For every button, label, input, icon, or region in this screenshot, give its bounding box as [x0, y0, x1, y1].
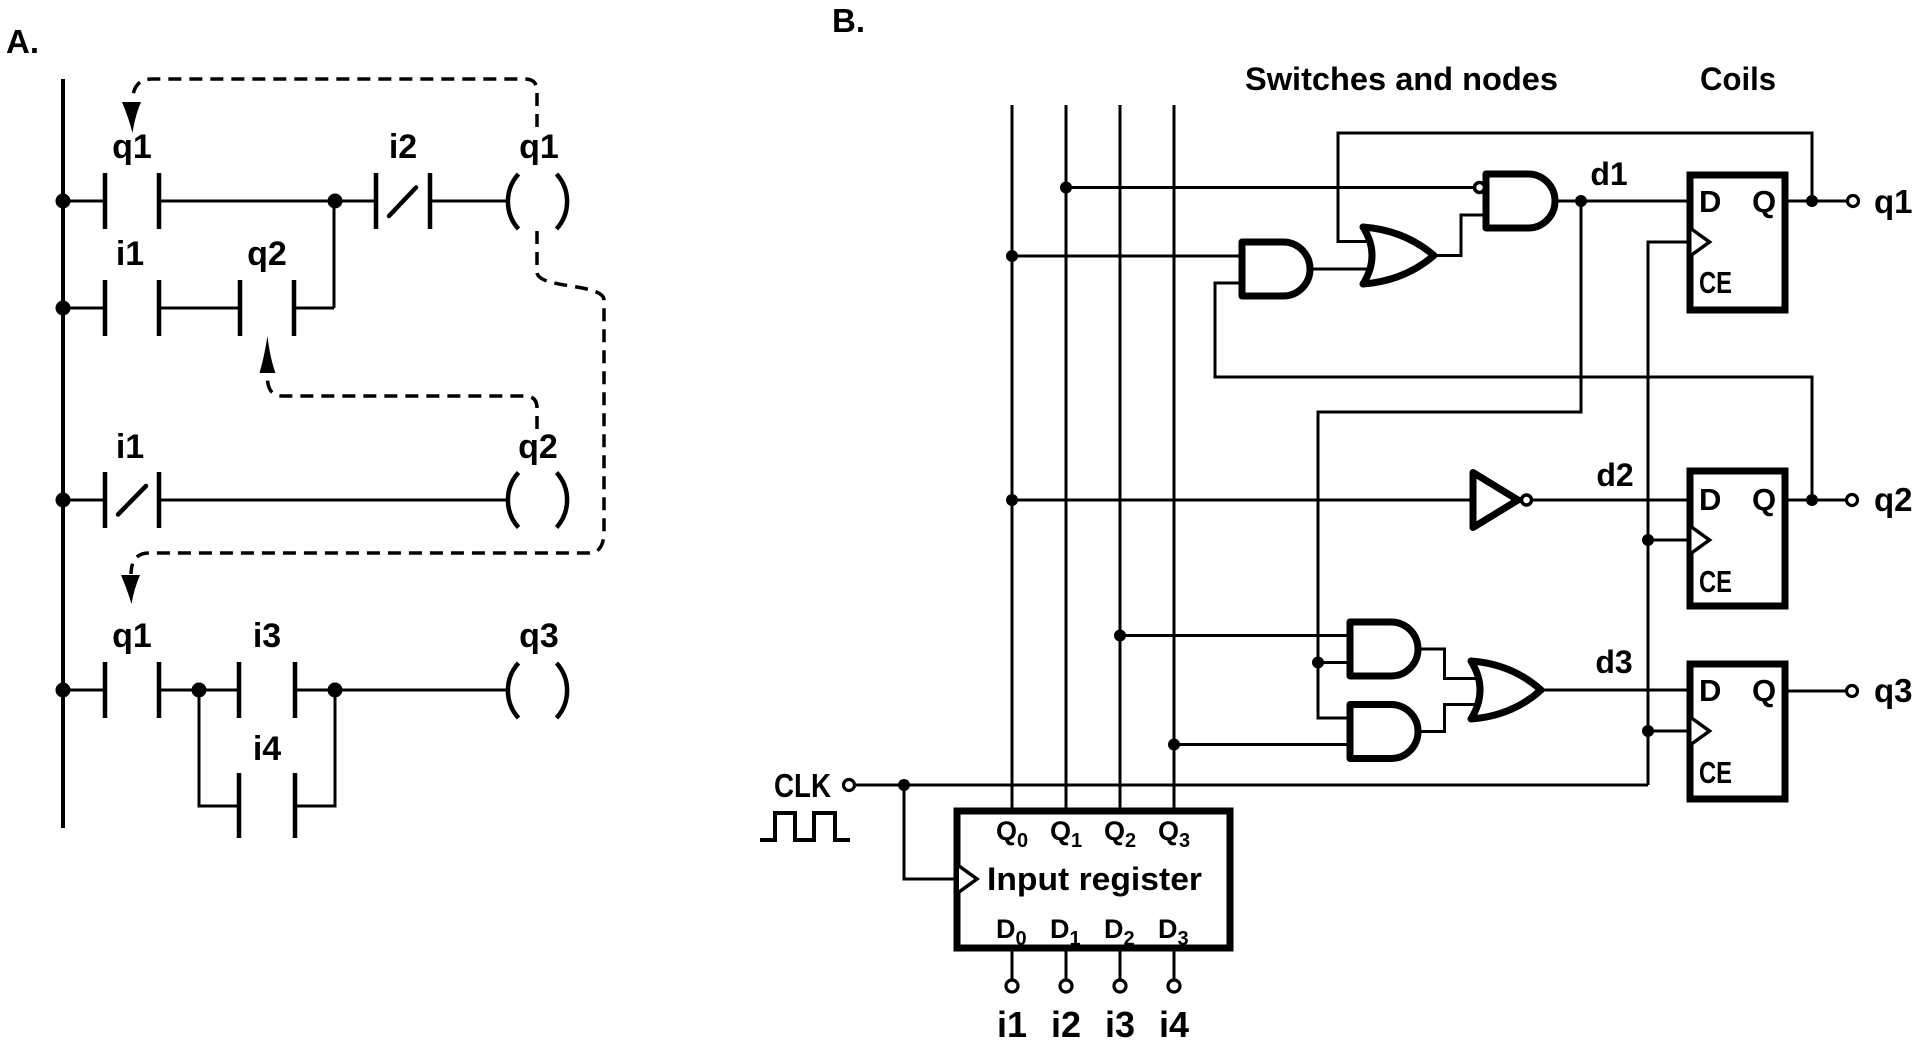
terminal circle i3 [1114, 980, 1126, 992]
wire D2 stub [1119, 948, 1122, 980]
node q1 junction dot [1806, 195, 1818, 207]
wire U6 output to U8 bottom input [1418, 705, 1476, 732]
svg-text:q2: q2 [518, 428, 558, 466]
svg-text:d3: d3 [1595, 644, 1632, 680]
wire U3 output to U7 D input (node d1) [1555, 200, 1690, 203]
svg-text:i2: i2 [389, 128, 417, 166]
svg-text:i4: i4 [1159, 1004, 1189, 1045]
coil q3 [508, 663, 519, 718]
wire rung2 i1 to q2 [159, 307, 240, 310]
wire CLK stub to U9 clock [1648, 730, 1690, 733]
flip-flop U10 (q2) box [1690, 471, 1785, 606]
svg-text:D: D [1699, 482, 1721, 517]
svg-text:q1: q1 [1874, 183, 1913, 220]
U7 clock triangle [1692, 229, 1710, 255]
bus Q2 vertical [1119, 105, 1122, 811]
wire Q1 to U3 inverted input [1066, 186, 1474, 189]
svg-text:A.: A. [6, 23, 39, 60]
svg-text:CE: CE [1699, 755, 1732, 790]
wire parallel branch left leg [199, 690, 239, 806]
svg-text:i1: i1 [997, 1004, 1027, 1045]
arrowhead down at rung4 q1 [121, 575, 140, 604]
node rail-rung3 junction dot [56, 493, 71, 508]
svg-text:Q: Q [1752, 673, 1776, 708]
wire CLK riser to flip-flop clocks [1648, 242, 1690, 785]
svg-text:d2: d2 [1596, 457, 1633, 493]
node rung4 left branch dot [192, 683, 207, 698]
node Q3 tap dot [1168, 739, 1180, 751]
terminal circle q1 [1848, 196, 1859, 207]
svg-text:Coils: Coils [1700, 61, 1776, 97]
wire rung4 q1 to node [159, 689, 239, 692]
and-gate U6 [1350, 705, 1418, 759]
coil q1 [508, 174, 519, 229]
wire rung2 q2 to branch corner [294, 307, 334, 310]
wire rung2 rail to contact i1 [63, 307, 105, 310]
node CLK junction dot [898, 779, 910, 791]
U11 clock triangle [959, 866, 977, 892]
wire D1 stub [1065, 948, 1068, 980]
dashed feedback q1 coil down to rung4 q1 contact [131, 231, 604, 574]
inverter U4 [1473, 473, 1518, 528]
and-gate U1 [1242, 242, 1310, 296]
bus Q0 vertical [1011, 105, 1014, 811]
bus Q1 vertical [1065, 105, 1068, 811]
or-gate U8 [1471, 661, 1541, 719]
terminal circle i2 [1060, 980, 1072, 992]
contact q2 (rung2, NO) [238, 280, 243, 336]
wire U5 output to U8 top input [1418, 649, 1476, 679]
wire rung3 i1 to coil q2 [159, 499, 509, 502]
contact i1 (rung3, NC) [103, 472, 108, 528]
contact i4 (branch, NO) [237, 773, 242, 838]
wire Q0 to U4 inverter input [1012, 499, 1471, 502]
wire rung1 contact q1 to contact i2 [159, 200, 376, 203]
svg-text:B.: B. [832, 2, 865, 39]
wire U10 Q to q2 terminal [1785, 499, 1846, 502]
svg-text:i3: i3 [1105, 1004, 1135, 1045]
wire U4 output to U10 D input (node d2) [1532, 499, 1690, 502]
contact i3 (rung4, NO) [237, 662, 242, 718]
flip-flop U9 (q3) box [1690, 664, 1785, 799]
svg-text:i1: i1 [116, 428, 144, 466]
arrowhead up at rung2 q2 [260, 336, 276, 373]
arrowhead down at rung1 q1 [122, 102, 141, 133]
dashed feedback q2 coil to rung2 q2 contact [268, 378, 538, 429]
wire CLK stub to U10 clock [1648, 539, 1690, 542]
svg-text:d1: d1 [1590, 156, 1627, 192]
inverter bubble on U3 top input [1475, 183, 1485, 193]
wire d1 branch to U5 bottom input [1318, 661, 1350, 664]
wire rung3 rail to contact i1 [63, 499, 105, 502]
terminal circle i1 [1006, 980, 1018, 992]
flip-flop U7 (q1) box [1690, 175, 1785, 310]
node d1 junction dot [1575, 195, 1587, 207]
wire D3 stub [1173, 948, 1176, 980]
wire rung4 i3 to coil q3 [295, 689, 509, 692]
node Q0 tap dot (i1 to AND) [1006, 250, 1018, 262]
node rail-rung4 junction dot [56, 683, 71, 698]
node Q1 tap dot [1060, 182, 1072, 194]
inverter bubble U4 output [1522, 495, 1532, 505]
nand-style gate U3 (AND with inverted top input) [1486, 174, 1555, 228]
wire parallel branch right leg [295, 690, 335, 806]
svg-text:D: D [1699, 184, 1721, 219]
svg-text:Input register: Input register [987, 861, 1202, 897]
svg-text:q1: q1 [519, 128, 559, 166]
node rail-rung2 junction dot [56, 301, 71, 316]
coil q2 [508, 473, 519, 528]
input register U11 box [957, 811, 1230, 948]
svg-text:i2: i2 [1051, 1004, 1081, 1045]
wire d1 feedback down to U5/U6 [1318, 201, 1581, 718]
wire D0 stub [1011, 948, 1014, 980]
terminal circle q3 [1847, 686, 1858, 697]
wire Q3 to U6 bottom input [1174, 743, 1350, 746]
U9 clock triangle [1692, 718, 1710, 744]
clock waveform symbol [760, 813, 850, 840]
dashed feedback q1 coil to rung1 q1 contact [133, 79, 538, 127]
wire CLK terminal to junction [855, 784, 904, 787]
node q2 junction dot [1806, 494, 1818, 506]
contact q1 (rung1, NO) [103, 173, 108, 229]
U10 clock triangle [1692, 527, 1710, 553]
svg-text:q2: q2 [247, 235, 287, 273]
or-gate U2 [1363, 227, 1434, 284]
node rung4 right branch dot [328, 683, 343, 698]
contact i1 (rung2, NO) [103, 280, 108, 336]
svg-text:q3: q3 [1874, 672, 1913, 709]
node d1 feedback branch dot [1312, 657, 1324, 669]
node CLK to U10 dot [1642, 534, 1654, 546]
bus Q3 vertical [1173, 105, 1176, 811]
svg-text:CE: CE [1699, 564, 1732, 599]
svg-text:CLK: CLK [774, 767, 831, 804]
wire U8 output to U9 D input (node d3) [1541, 689, 1690, 692]
svg-text:q1: q1 [112, 128, 152, 166]
node Q2 tap dot [1114, 630, 1126, 642]
svg-text:D: D [1699, 673, 1721, 708]
node rail-rung1 junction dot [56, 194, 71, 209]
wire branch rung2 to rung1 junction [333, 201, 336, 308]
wire U2 output to U3 bottom input [1434, 215, 1486, 256]
wire rung4 rail to contact q1 [63, 689, 105, 692]
wire q2 feedback to U1 bottom input [1215, 283, 1812, 500]
wire CLK to U11 clock input [904, 785, 957, 879]
wire U7 Q to q1 terminal [1785, 200, 1847, 203]
wire Q2 to U5 top input [1120, 634, 1350, 637]
wire rung1 contact i2 to coil q1 [430, 200, 509, 203]
svg-text:Q: Q [1752, 184, 1776, 219]
and-gate U5 [1350, 622, 1418, 676]
contact q1 (rung4, NO) [103, 662, 108, 718]
wire rung1 rail to contact q1 [63, 200, 105, 203]
svg-text:q2: q2 [1874, 481, 1913, 518]
terminal circle CLK [844, 780, 855, 791]
wire CLK distribution horizontal [904, 784, 1648, 787]
power rail left bus [61, 79, 65, 828]
svg-text:q3: q3 [519, 617, 559, 655]
contact i2 (rung1, NC) [374, 173, 379, 229]
node Q0 tap dot (i1 to NOT) [1006, 494, 1018, 506]
wire Q0 to U1 top input [1012, 255, 1242, 258]
svg-text:i1: i1 [116, 235, 144, 273]
terminal circle q2 [1847, 495, 1858, 506]
wire q1 feedback to U2 top input [1338, 133, 1812, 242]
svg-text:CE: CE [1699, 265, 1732, 300]
svg-text:i4: i4 [253, 730, 281, 768]
svg-text:Switches and nodes: Switches and nodes [1245, 61, 1558, 97]
wire U1 output to U2 bottom input [1310, 268, 1378, 271]
svg-text:q1: q1 [112, 617, 152, 655]
node rung1 branch junction dot [328, 194, 343, 209]
svg-text:i3: i3 [253, 617, 281, 655]
svg-text:Q: Q [1752, 482, 1776, 517]
wire U9 Q to q3 terminal [1785, 690, 1846, 693]
terminal circle i4 [1168, 980, 1180, 992]
node CLK to U9 dot [1642, 725, 1654, 737]
